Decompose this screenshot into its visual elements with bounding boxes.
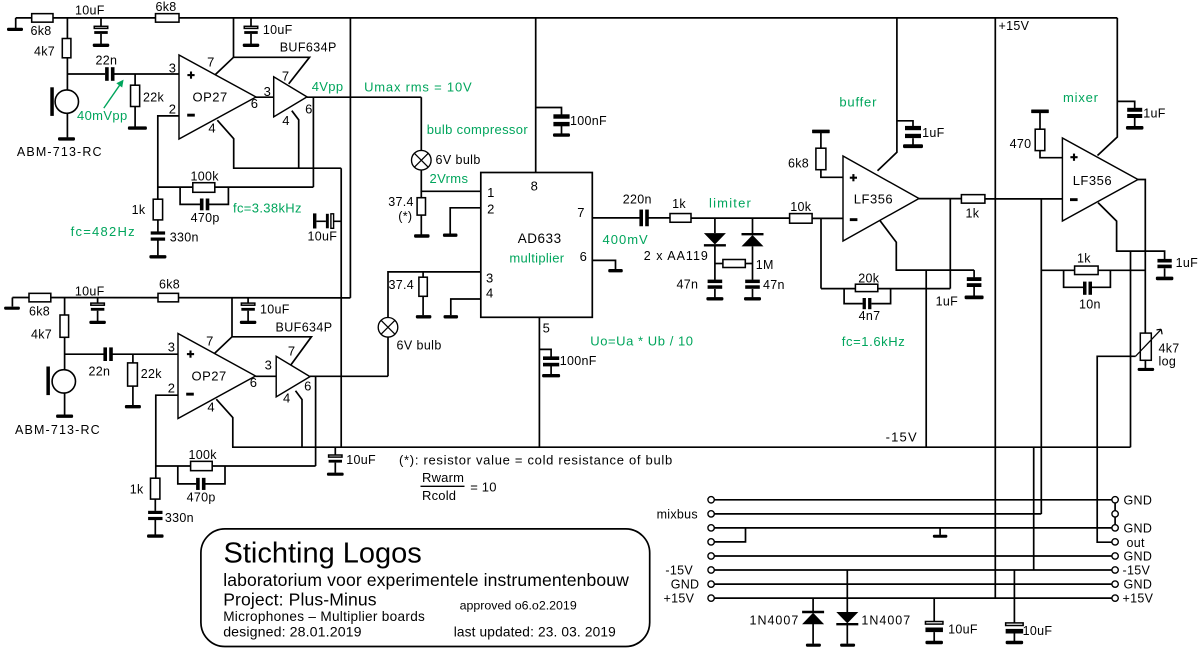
terminal right 8 [1112,595,1118,601]
svg-text:1k: 1k [1077,252,1091,266]
svg-text:100nF: 100nF [560,354,597,368]
capacitor 470p ch2 [196,478,205,490]
svg-text:7: 7 [288,344,295,359]
svg-text:bulb compressor: bulb compressor [427,122,529,137]
svg-text:mixer: mixer [1063,90,1099,105]
title block frame [201,529,650,647]
minus sign LF356 buffer [850,218,858,221]
terminal right 7 [1112,581,1118,587]
microphone ABM-713-RC ch2 [46,367,75,396]
wire bulb to pin1 node ch1 [421,170,481,192]
ground diode 1N4007 a [806,644,821,647]
svg-text:100k: 100k [189,448,218,462]
label 1k ch2 [130,483,144,497]
wire 22k stem ch1 [134,74,136,85]
svg-text:10n: 10n [1079,297,1101,311]
wire 330n to ground ch2 [154,520,156,535]
pin 7 BUF634P ch2 [288,344,295,359]
capacitor 470p ch1 [200,199,209,211]
wire 100nF stub AD633 top [536,108,562,115]
wire pot wiper to out [1097,356,1135,542]
svg-text:4: 4 [283,390,290,405]
pin 3 OP27 ch1 [169,61,176,76]
svg-text:Uo=Ua * Ub / 10: Uo=Ua * Ub / 10 [590,333,693,348]
wire diode 2 stem [752,218,754,234]
resistor 4k7 ch1 [62,39,71,58]
svg-text:37.4: 37.4 [389,278,415,292]
label -15V right [1123,564,1151,578]
annotation bulb compressor [427,122,529,137]
wire 4k7 to mic ch2 [64,298,66,370]
svg-text:out: out [1127,536,1146,550]
ground 22k ch1 [128,126,147,129]
label 1uF buffer top [922,126,945,140]
svg-text:6V bulb: 6V bulb [397,339,442,353]
label 1N4007 b [861,614,911,628]
diode 1N4007 b [836,612,858,624]
wire bus line 1 GND [714,499,1112,501]
svg-text:470p: 470p [187,491,216,505]
svg-text:4k7: 4k7 [34,45,55,59]
wire +15V to pin8 AD633 [535,18,537,173]
wire 10uF stem ch2 a [97,298,99,303]
minus sign OP27 ch1 [187,114,195,117]
buffer BUF634P ch2 [276,356,310,397]
wire 22k to ground ch2 [132,386,134,405]
svg-text:fc=482Hz: fc=482Hz [71,224,136,239]
title microphones [223,609,425,624]
terminal left 1 [708,497,714,503]
capacitor 330n ch2 [148,511,162,520]
wire 1uF mixer ground lead [1134,118,1136,126]
wire OP27 out to BUF634P ch1 [256,96,274,98]
svg-text:fc=3.38kHz: fc=3.38kHz [233,200,302,215]
label 100k ch2 [189,448,218,462]
wire 10uF stem ch1 a [100,18,102,27]
wire pot to ground [1144,360,1146,368]
wire OP27 pin7 stub ch2 [214,337,311,365]
capacitor 22n ch1 [105,67,114,81]
ground diode 1N4007 b [840,644,855,647]
pin 6 BUF634P ch2 [304,378,311,393]
svg-text:last updated: 23. 03. 2019: last updated: 23. 03. 2019 [454,625,616,640]
capacitor 1uF buffer top [905,126,921,138]
label multiplier [509,251,564,266]
wire 1uF mixer V- ground lead [1164,268,1166,277]
annotation fc=3.38kHz ch1 [233,200,302,215]
wire 10uF bus a stem [933,598,935,622]
wire +15V drop to channel 2 [349,18,351,298]
label 10uF bus a [948,623,978,637]
capacitor 10uF rail ch2 a [91,303,105,311]
svg-text:47n: 47n [763,278,785,292]
wire -15V rail [232,446,1131,448]
svg-text:(*): resistor value = cold res: (*): resistor value = cold resistance of… [399,452,673,467]
power stub +15V 6k8 buffer [812,130,830,134]
wire +15V rail ch2 [12,297,350,299]
label 10uF ch2 b [260,303,290,317]
wire 4n7 loop left [844,289,863,304]
label 330n ch1 [170,231,199,245]
label 47n a [677,278,699,292]
svg-text:Microphones – Multiplier board: Microphones – Multiplier boards [223,609,425,624]
annotation 4Vpp ch1 [312,79,344,94]
svg-text:4: 4 [208,120,215,135]
plus sign OP27 ch1 [187,72,194,79]
svg-text:6: 6 [305,102,312,117]
label BUF634P ch1 [280,41,337,55]
svg-text:ABM-713-RC: ABM-713-RC [17,145,103,159]
wire 22n to op-amp ch1 [113,73,179,75]
svg-text:40mVpp: 40mVpp [77,108,128,123]
wire 10n loop left [1064,270,1083,287]
wire buffer feedback drop [820,218,822,288]
svg-text:6k8: 6k8 [31,24,52,38]
pin 3 BUF634P ch2 [265,358,272,373]
label 1uF mixer V- [1176,256,1199,270]
wire bus line 3 GND [714,527,1112,529]
terminal left 4 [708,539,714,545]
wire 100nF top to ground [561,125,563,133]
label GND right 3 [1124,521,1153,535]
wire bus line 7 GND [714,583,1112,585]
wire feedback run ch1 [158,186,314,188]
svg-text:6: 6 [580,249,587,264]
wire mixer feedback to output [1098,269,1145,271]
wire 1uF buffer top stub [897,121,913,126]
svg-text:GND: GND [1124,578,1153,592]
svg-text:7: 7 [577,205,584,220]
ground 1uF mixer V- [1156,277,1174,281]
wire 20k to output drop [878,288,951,290]
svg-text:5: 5 [543,320,550,335]
title Stichting Logos [224,538,422,570]
pin 7 OP27 ch2 [206,333,213,348]
svg-text:4: 4 [486,286,493,301]
svg-text:400mV: 400mV [603,232,649,247]
label 330n ch2 [165,511,194,525]
label ABM-713-RC ch2 [15,423,101,437]
label 10uF coupling ch1 [308,230,338,244]
label LF356 buffer [854,191,893,206]
label -15V left [665,564,693,578]
wire 1k to 330n ch2 [154,499,156,511]
wire pin2 to ground AD633 [450,208,481,234]
multiplier AD633 U1 [481,173,593,318]
wire feedback run ch2 [156,465,316,467]
svg-text:-15V: -15V [665,564,693,578]
svg-text:10uF: 10uF [948,623,978,637]
title project [223,589,377,609]
capacitor 47n a [708,280,723,289]
label out right [1127,536,1146,550]
terminal left 3 [708,525,714,531]
pin 4 BUF634P ch1 [282,113,289,128]
svg-text:GND: GND [1124,549,1153,563]
ground microphone ch1 [58,137,75,140]
capacitor 220n [639,210,648,227]
label GND right 5 [1124,549,1153,563]
svg-text:1uF: 1uF [936,295,959,309]
label 20k buffer [858,272,880,286]
svg-text:+15V: +15V [999,19,1030,33]
ground 330n ch1 [149,255,166,258]
svg-text:approved o6.o2.2019: approved o6.o2.2019 [460,599,577,613]
op-amp OP27 ch1 [179,55,256,139]
wire 22n to op-amp ch2 [111,353,178,355]
svg-text:4Vpp: 4Vpp [312,79,344,94]
label 1k limiter [672,197,686,211]
pin 4 BUF634P ch2 [283,390,290,405]
terminal right 5 [1112,553,1118,559]
resistor 6k8 ch2 bias [29,293,51,302]
wire bus line 2 mixbus [714,513,1041,515]
wire 1uF buffer bottom stem [973,270,975,277]
ground 10uF -15V [327,473,344,476]
wire diode 1N4007 b stem [846,570,848,612]
svg-text:1N4007: 1N4007 [861,614,911,628]
title approved [460,599,577,613]
wire diode 1N4007 a ground lead [812,624,814,644]
label +15V right [1123,592,1154,606]
diode AA119 b [742,234,764,246]
svg-text:10uF: 10uF [260,303,290,317]
wire 6k8 to buffer plus [821,170,843,178]
terminal right 3 [1112,525,1118,531]
pin 6 AD633 [580,249,587,264]
svg-text:log: log [1159,354,1177,368]
ground bus line 3 [933,535,948,538]
fraction bar [421,485,465,487]
wire mixer feedback run [1041,269,1074,271]
label 470 mixer [1010,137,1032,151]
wire 10uF stem ch2 b [247,298,249,303]
label +15V top [999,19,1030,33]
wire 47n a to ground [714,289,716,297]
wire OP27 out to BUF634P ch2 [256,375,277,377]
svg-text:GND: GND [671,578,700,592]
svg-text:-15V: -15V [1123,564,1151,578]
ground 10uF ch2 a [89,321,106,324]
wire 10uF to ground ch2 a [97,311,99,321]
ground 1uF mixer top [1126,126,1144,130]
resistor 6k8 buffer [816,148,826,170]
wire diode1 to 47n [714,246,716,280]
label 22k ch2 [141,367,163,381]
pin 1 AD633 [487,185,494,200]
op-amp LF356 mixer [1062,138,1138,221]
ground 10uF ch1 b [243,44,260,47]
wire 220n to 1k [648,217,670,219]
svg-text:8: 8 [531,179,538,194]
svg-text:4: 4 [282,113,289,128]
wire 10uF to ground ch2 b [247,311,249,321]
pin 3 OP27 ch2 [168,340,175,355]
label 6k8 ch1 feed [156,0,177,14]
svg-text:7: 7 [282,68,289,83]
annotation 400mV [603,232,649,247]
wire 330n to ground ch1 [157,241,159,256]
svg-text:6k8: 6k8 [788,157,809,171]
wire bus line 4 stub [714,528,745,542]
svg-text:2Vrms: 2Vrms [430,171,469,186]
label +15V left [664,592,695,606]
wire 1M left lead [715,263,723,265]
svg-text:47n: 47n [677,278,699,292]
wire mic to ground ch1 [66,113,68,137]
label 1uF mixer top [1143,106,1166,120]
label ABM-713-RC ch1 [17,145,103,159]
capacitor 1uF mixer V- [1157,259,1171,268]
svg-text:330n: 330n [170,231,199,245]
svg-text:laboratorium voor experimentel: laboratorium voor experimentele instrume… [223,570,629,590]
svg-text:OP27: OP27 [193,90,228,105]
svg-text:Project: Plus-Minus: Project: Plus-Minus [223,589,377,609]
label 10uF ch1 b [263,23,293,37]
wire link right terminals 1-2 [1114,502,1116,513]
label 1N4007 a [750,614,800,628]
wire OP27 pin2 ch1 [158,116,179,199]
wire diode 1 stem [714,218,716,233]
capacitor 4n7 buffer [863,298,872,309]
svg-text:limiter: limiter [709,196,752,211]
ground 1uF buffer bottom [965,296,984,300]
annotation fc=1.6kHz [842,334,906,349]
ground 10uF bus a [925,641,943,644]
label 4k7 pot [1159,342,1180,356]
wire diode 1N4007 b ground lead [846,625,848,644]
resistor 1k ch1 [153,199,162,220]
wire mixer V+ stub [1098,18,1118,156]
wire BUF634P output ch1 [307,96,421,98]
label 6k8 ch2 feed [159,277,180,291]
svg-text:10uF: 10uF [1023,624,1053,638]
wire 1k to 330n ch1 [157,220,159,232]
svg-text:LF356: LF356 [1073,173,1112,188]
op-amp LF356 buffer [843,156,919,241]
svg-text:470p: 470p [191,211,220,225]
svg-text:buffer: buffer [839,94,877,109]
wire 470 to mixer plus [1040,151,1062,158]
wire ground stub bus line 3 [939,528,941,535]
pin 8 AD633 [531,179,538,194]
resistor 6k8 ch2 feed [158,293,179,302]
lamp 6V bulb ch2 [378,318,398,338]
svg-text:220n: 220n [623,193,652,207]
svg-text:6k8: 6k8 [159,277,180,291]
wire 470p loop ch2 [178,466,196,484]
svg-text:fc=1.6kHz: fc=1.6kHz [842,334,906,349]
svg-text:1k: 1k [966,206,980,220]
label 1M [756,258,774,272]
wire +15V top rail [16,17,1118,19]
pin 7 AD633 [577,205,584,220]
wire 47n b to ground [752,289,754,297]
svg-text:ABM-713-RC: ABM-713-RC [15,423,101,437]
wire bus line 8 +15V [714,597,1112,599]
wire 1uF buffer top ground [912,138,914,144]
resistor 10k buffer [790,214,813,224]
ground input divider ch1 [7,28,23,31]
svg-text:LF356: LF356 [854,191,893,206]
svg-text:BUF634P: BUF634P [280,41,337,55]
wire input node to 22n ch2 [65,353,104,355]
ground potentiometer [1138,368,1155,371]
plus sign LF356 buffer [850,174,857,181]
op-amp OP27 ch2 [178,334,256,419]
capacitor 10uF bus a [925,622,943,633]
wire V- drop ch1 [340,168,342,447]
ground microphone ch2 [56,415,73,418]
capacitor 10uF -15V rail [329,455,342,463]
wire mixbus summing drop [1040,199,1042,514]
wire 4n7 loop right [872,289,891,304]
resistor 1k limiter [670,214,691,223]
wire 10uF to ground ch1 a [100,34,102,44]
wire 10uF stem ch1 b [250,18,252,27]
label 1k mixer feedback [1077,252,1091,266]
label 37.4 ch1 [388,195,414,209]
svg-text:mixbus: mixbus [657,508,698,522]
wire 470p loop ch1 [180,187,200,204]
svg-text:3: 3 [169,61,176,76]
svg-text:1k: 1k [672,197,686,211]
pin 6 OP27 ch1 [251,96,258,111]
svg-text:2 x AA119: 2 x AA119 [644,249,709,263]
ground 47n a [706,297,723,300]
wire 6k8 buffer stem [820,133,822,148]
label 1k ch1 [132,203,146,217]
wire 10uF to ground ch1 b [250,34,252,44]
svg-text:OP27: OP27 [192,369,227,384]
plus sign LF356 mixer [1070,154,1077,161]
label 37.4 ch2 [389,278,415,292]
wire pin4 to ground AD633 [451,299,481,315]
pin 5 AD633 [543,320,550,335]
label 470p ch1 [191,211,220,225]
pin 2 AD633 [487,201,494,216]
label LF356 mixer [1073,173,1112,188]
resistor 1k mixer feedback [1075,266,1099,275]
wire 37.4 stem ch1 [420,191,422,197]
wire 10uF bus b stem [1013,570,1015,623]
wire OP27 pin7 stub ch1 [215,57,309,84]
wire buffer V+ stub [878,18,897,171]
wire mixer V- stub [1098,203,1165,260]
ground 10uF ch2 b [240,321,257,324]
label 22n ch2 [89,365,111,379]
pin 4 OP27 ch2 [207,399,214,414]
terminal right 4 [1112,539,1118,545]
svg-text:4k7: 4k7 [31,328,52,342]
label 100nF bottom [560,354,597,368]
ground 37.4 ch1 [414,234,430,237]
label OP27 ch2 [192,369,227,384]
annotation buffer [839,94,877,109]
svg-text:+15V: +15V [664,592,695,606]
svg-text:10uF: 10uF [75,284,105,298]
wire 37.4 stem ch2 [422,272,424,277]
wire feedback drop ch1 [312,97,314,187]
resistor 1M [723,260,745,268]
capacitor 100nF AD633 top [553,114,569,126]
wire 10uF -15V stem [334,447,336,455]
label 22n ch1 [96,54,118,68]
svg-text:1N4007: 1N4007 [750,614,800,628]
wire 10uF bus a ground lead [933,632,935,641]
svg-text:10uF: 10uF [75,4,105,18]
label 6k8 ch1 bias [31,24,52,38]
